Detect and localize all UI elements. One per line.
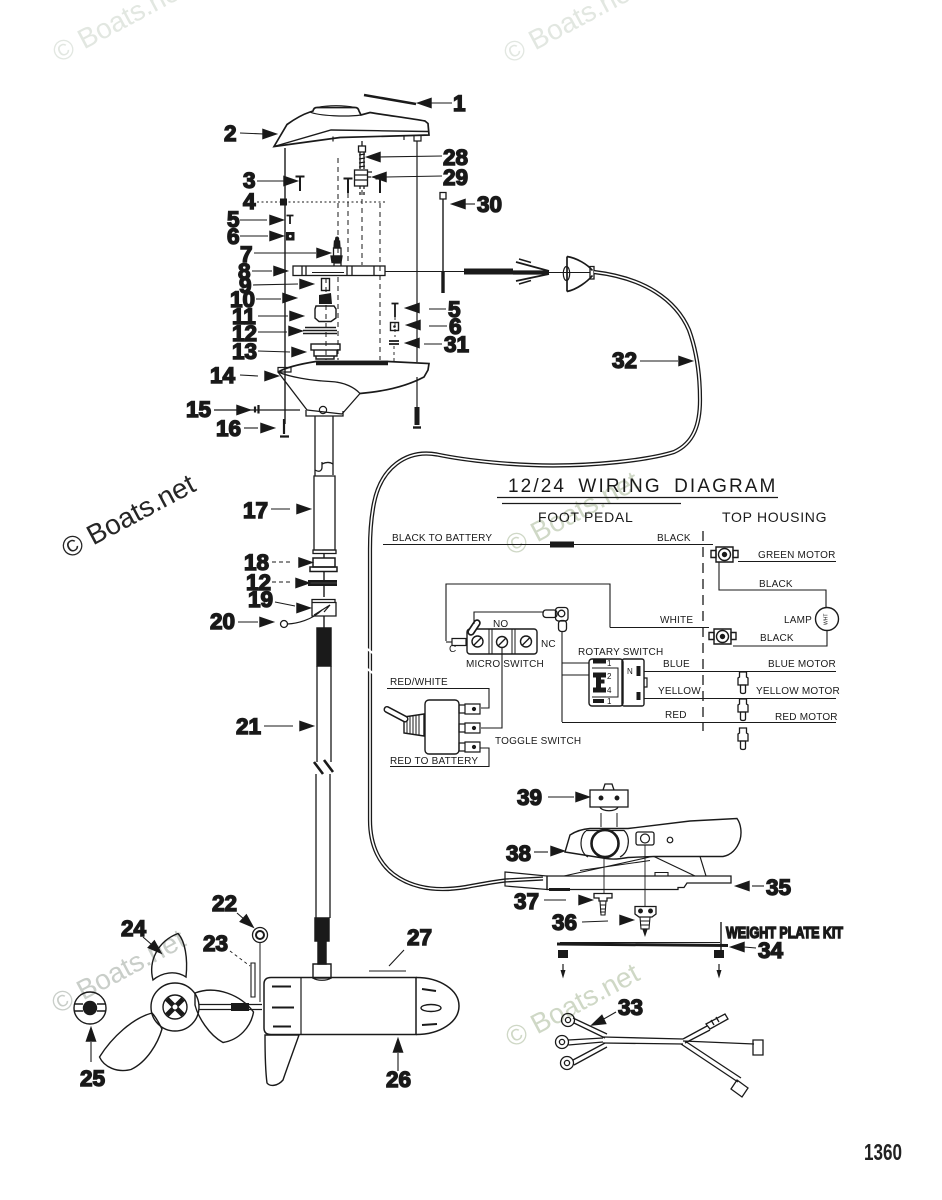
toggle terminals: [459, 704, 480, 752]
part 16 bolt: [280, 419, 289, 437]
label 28: [367, 153, 380, 162]
part 36 plug: [635, 907, 656, 936]
screw S3b: [344, 179, 353, 194]
lamp: [816, 608, 839, 631]
svg-text:2: 2: [607, 672, 612, 681]
svg-text:LAMP: LAMP: [784, 615, 812, 626]
part 22 screw: [253, 928, 268, 1003]
prop shaft: [199, 1005, 262, 1010]
svg-text:GREEN MOTOR: GREEN MOTOR: [758, 550, 836, 561]
bullet connector 1: [738, 672, 748, 694]
svg-text:14: 14: [210, 363, 236, 388]
cover C2 (part 2 motor head cover): [274, 108, 429, 147]
shaft S17 (part 17): [313, 476, 336, 554]
terminal T2: [709, 629, 736, 644]
svg-text:© Boats.net: © Boats.net: [56, 468, 200, 564]
micro switch body: [467, 629, 537, 654]
part 5 right pin: [392, 304, 399, 318]
prop blade top: [152, 934, 187, 981]
arrow to part 1: [418, 99, 431, 108]
svg-text:TOGGLE SWITCH: TOGGLE SWITCH: [495, 736, 581, 747]
svg-text:29: 29: [443, 165, 468, 190]
part 13 bearing: [311, 344, 340, 359]
dashed centerline b: [347, 193, 349, 264]
bullet connector 3: [738, 728, 748, 750]
svg-text:YELLOW: YELLOW: [658, 686, 701, 697]
prop blade right: [195, 990, 254, 1042]
svg-text:4: 4: [607, 686, 612, 695]
plate bolt right: [714, 950, 724, 958]
part 11 brush cap: [315, 306, 336, 322]
part 25 washer: [74, 992, 106, 1024]
svg-text:36: 36: [552, 910, 577, 935]
svg-text:BLUE: BLUE: [663, 659, 690, 670]
svg-text:2: 2: [224, 121, 237, 146]
svg-text:NC: NC: [541, 639, 556, 650]
svg-text:19: 19: [248, 587, 273, 612]
part 8 armature bar: [293, 263, 385, 276]
svg-text:BLACK TO BATTERY: BLACK TO BATTERY: [392, 533, 492, 544]
micro switch wire box: [446, 584, 610, 641]
svg-text:13: 13: [232, 339, 257, 364]
elbow connector: [543, 608, 568, 632]
dark rod: [464, 269, 513, 275]
wire NO down: [481, 648, 502, 728]
construction vertical right: [416, 141, 418, 362]
harness 33: [556, 1014, 764, 1098]
svg-text:© Boats.net: © Boats.net: [498, 0, 642, 69]
dashed centerline c: [379, 203, 381, 360]
svg-text:39: 39: [517, 785, 542, 810]
part 6 left nut: [287, 233, 295, 241]
svg-text:TOP HOUSING: TOP HOUSING: [722, 509, 827, 525]
dashed divider: [702, 531, 704, 731]
svg-text:BLACK: BLACK: [760, 633, 794, 644]
part 9 pin: [322, 279, 330, 291]
svg-text:24: 24: [121, 916, 147, 941]
cover right nub: [414, 135, 421, 141]
dashed centerline e: [337, 158, 339, 360]
part 19 mount block: [312, 600, 336, 617]
svg-text:N: N: [627, 667, 633, 676]
part 28 screw: [359, 141, 366, 169]
screw S3c: [376, 179, 385, 194]
steering tube upper: [315, 416, 333, 476]
svg-text:RED MOTOR: RED MOTOR: [775, 712, 838, 723]
part 23 pin: [251, 963, 255, 997]
part 12b washers: [308, 580, 337, 586]
funnel F32: [567, 257, 593, 292]
right long screw: [415, 407, 420, 425]
wires to bundle: [573, 1018, 607, 1038]
label 29: [373, 173, 386, 182]
svg-text:22: 22: [212, 891, 237, 916]
svg-text:RED/WHITE: RED/WHITE: [390, 677, 448, 688]
svg-text:RED: RED: [665, 710, 687, 721]
svg-text:BLACK: BLACK: [759, 579, 793, 590]
prop blade left: [100, 1013, 163, 1071]
part 6 right nut: [391, 323, 399, 331]
svg-text:37: 37: [514, 889, 539, 914]
bullet connector 2: [738, 699, 748, 721]
part 4 dotted line: [257, 201, 385, 203]
label 30: [452, 200, 465, 209]
svg-text:12/24 WIRING DIAGRAM: 12/24 WIRING DIAGRAM: [508, 476, 778, 497]
svg-text:6: 6: [227, 224, 240, 249]
skeg fin: [265, 1035, 299, 1085]
svg-text:38: 38: [506, 841, 531, 866]
svg-text:C: C: [449, 644, 456, 655]
plate bolt left: [558, 950, 568, 958]
part 10 block: [319, 293, 332, 304]
svg-text:RED TO BATTERY: RED TO BATTERY: [390, 756, 478, 767]
svg-text:1: 1: [607, 659, 612, 668]
part 15 pin: [255, 405, 259, 414]
WEIGHT PLATE KIT: [720, 922, 722, 951]
part 20 clip: [281, 621, 288, 628]
housing H14 (part 14 lower housing): [278, 362, 429, 417]
svg-text:27: 27: [407, 925, 432, 950]
svg-text:33: 33: [618, 995, 643, 1020]
dart arrow cable end: [513, 270, 549, 274]
part 34 plate: [557, 944, 728, 946]
screw row S3a: [296, 177, 305, 192]
svg-text:31: 31: [444, 332, 469, 357]
C terminal sleeve: [452, 639, 466, 646]
cable entry wedge: [505, 872, 547, 890]
svg-text:BLACK: BLACK: [657, 533, 691, 544]
bundle: [603, 1037, 683, 1044]
cable32 big loop: [370, 272, 700, 889]
wire elbow to rotary and red run: [561, 631, 563, 722]
dashed centerline a: [361, 190, 363, 265]
construction vertical left: [284, 148, 286, 424]
part 31 washer: [389, 341, 399, 344]
svg-text:35: 35: [766, 875, 791, 900]
svg-text:YELLOW MOTOR: YELLOW MOTOR: [756, 686, 840, 697]
svg-text:WHT: WHT: [824, 614, 830, 625]
svg-text:23: 23: [203, 931, 228, 956]
svg-text:17: 17: [243, 498, 268, 523]
motor body M26: [264, 978, 459, 1035]
shaft threaded end: [315, 918, 329, 941]
svg-text:FOOT PEDAL: FOOT PEDAL: [538, 509, 633, 525]
part 29 valve: [355, 170, 373, 196]
base plate 35: [547, 873, 731, 890]
svg-text:© Boats.net: © Boats.net: [47, 0, 191, 68]
svg-text:4: 4: [243, 189, 256, 214]
branch straight right: [683, 1041, 754, 1044]
svg-text:20: 20: [210, 609, 235, 634]
part 39 bracket: [590, 784, 628, 827]
shaft S21 (part 21): [314, 666, 333, 918]
svg-text:MICRO SWITCH: MICRO SWITCH: [466, 659, 544, 670]
dashed centerline d: [325, 278, 327, 360]
svg-text:15: 15: [186, 397, 211, 422]
svg-text:BLUE MOTOR: BLUE MOTOR: [768, 659, 836, 670]
svg-text:21: 21: [236, 714, 261, 739]
part 5 left pin: [287, 216, 294, 225]
part 37 T-bolt: [594, 894, 612, 916]
rotary switch: [589, 659, 647, 706]
wire T1 to lamp: [719, 562, 826, 607]
part 18 collar: [310, 558, 337, 572]
svg-text:1: 1: [607, 697, 612, 706]
svg-text:34: 34: [758, 938, 784, 963]
drive rod and funnel: [385, 271, 464, 273]
toggle switch: [387, 700, 459, 754]
svg-text:1360: 1360: [864, 1139, 902, 1165]
branch upper right: [683, 1026, 710, 1043]
pin P1 (part 1): [364, 95, 416, 104]
svg-text:30: 30: [477, 192, 502, 217]
shaft grip dark: [317, 628, 331, 666]
cable break ticks: [366, 648, 374, 674]
ring terminals: [562, 1014, 575, 1027]
svg-text:25: 25: [80, 1066, 105, 1091]
svg-text:32: 32: [612, 348, 637, 373]
svg-text:WEIGHT PLATE KIT: WEIGHT PLATE KIT: [726, 925, 843, 942]
svg-text:ROTARY SWITCH: ROTARY SWITCH: [578, 647, 663, 658]
pedal hinge lines: [564, 857, 652, 877]
part 12 washers: [303, 328, 337, 334]
pedal body 38: [565, 819, 741, 860]
cover bottom ticks: [333, 136, 404, 142]
part 7 bolt: [331, 237, 342, 262]
connector on screw1: [471, 623, 477, 632]
wire lamp to T2: [733, 631, 827, 647]
branch lower right: [681, 1041, 741, 1082]
propeller hub: [151, 983, 199, 1031]
shaft collar: [313, 964, 331, 978]
terminal T1: [711, 547, 738, 562]
svg-text:16: 16: [216, 416, 241, 441]
svg-text:NO: NO: [493, 619, 508, 630]
part 30 rod: [440, 193, 446, 200]
svg-text:WHITE: WHITE: [660, 615, 693, 626]
svg-text:1: 1: [453, 91, 466, 116]
